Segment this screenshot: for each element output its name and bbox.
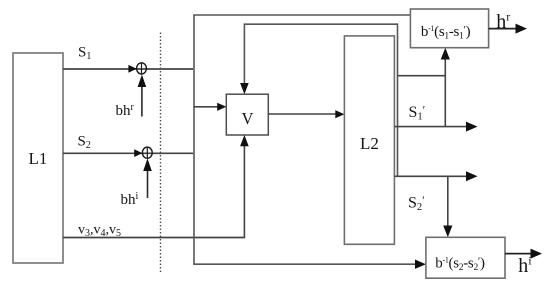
bh^r input arrow into adder 1 <box>138 75 147 117</box>
bh^i input arrow into adder 2 <box>143 159 152 199</box>
wire from v-line up into V bottom <box>243 140 245 238</box>
arrowhead into inverse block 2 left <box>415 260 426 269</box>
svg-text:v3,v4,v5: v3,v4,v5 <box>78 223 121 240</box>
bus bottom wire toward inverse block 2 <box>193 263 418 265</box>
arrowhead into adder 2 <box>134 149 142 157</box>
arrowhead into L2 left <box>335 110 344 118</box>
arrowhead into inverse block 2 top <box>443 226 452 238</box>
wire S1' output of L2 <box>394 126 467 128</box>
svg-text:L2: L2 <box>360 134 379 153</box>
arrowhead into adder 1 <box>128 65 136 73</box>
bus top edge to inverse block 1 <box>193 14 410 16</box>
block L1 <box>13 53 63 263</box>
wire v3,v4,v5 from L1 to V bottom feed <box>63 237 245 239</box>
svg-text:L1: L1 <box>29 149 48 168</box>
wire V output to L2 <box>268 113 338 115</box>
feedback drop from S2' into inverse block 2 <box>447 176 449 231</box>
block V <box>226 94 268 135</box>
inverse block 1: b^-1(s1-s1') <box>410 9 488 48</box>
wire S1 from L1 to summing node and on to bus <box>63 68 193 70</box>
arrowhead S1' output <box>466 122 478 132</box>
adder (summing junction) 2 <box>142 147 152 158</box>
wire S2' output of L2 <box>394 175 467 177</box>
adder (summing junction) 1 <box>137 63 147 74</box>
arrowhead into V bottom <box>240 135 249 146</box>
feedback drop wire into V top <box>243 23 245 89</box>
arrowhead S2' output <box>466 171 478 181</box>
svg-text:V: V <box>242 109 254 128</box>
dashed separator line <box>160 33 162 273</box>
inverse block 2: b^-1(s2-s2') <box>426 237 505 278</box>
inner feedback top wire <box>244 23 397 25</box>
feedback riser from S1' to inverse block 1 <box>444 53 446 127</box>
wire h^i output <box>505 253 532 255</box>
wire from bus into V left <box>194 106 220 108</box>
arrowhead into inverse block 1 bottom <box>441 48 450 60</box>
arrowhead h^r output <box>516 24 528 34</box>
arrowhead h^i output <box>531 249 543 259</box>
link wire S1' riser to feedback vertical <box>398 75 446 77</box>
arrowhead into V left <box>217 103 226 111</box>
block L2 <box>344 36 394 244</box>
wire h^r output <box>489 28 517 30</box>
arrowhead into V top <box>240 83 249 94</box>
wire S2 from L1 to summing node and on to bus <box>63 152 193 154</box>
bus left edge (vertical) <box>193 15 195 264</box>
feedback right vertical wire <box>397 23 399 176</box>
